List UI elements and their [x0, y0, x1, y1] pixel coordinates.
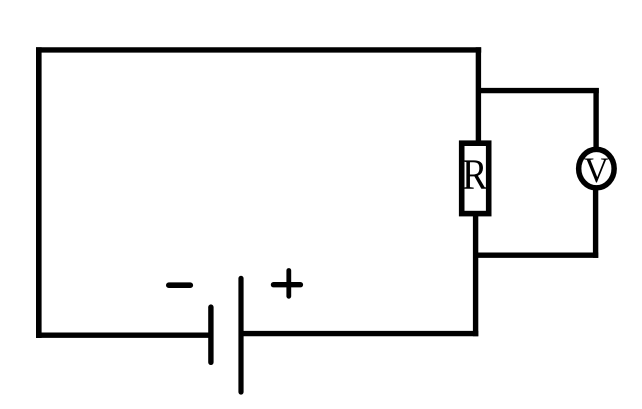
- resistor R body: [462, 143, 489, 213]
- battery positive plate (long): [238, 278, 243, 392]
- wire right rail lower (resistor to bottom rail): [473, 213, 478, 336]
- voltmeter V body: [579, 149, 615, 188]
- battery plus polarity label: [274, 271, 301, 297]
- voltmeter V label: [584, 159, 608, 183]
- wire top rail: [36, 47, 481, 52]
- wire voltmeter lead lower: [593, 188, 598, 258]
- battery minus polarity label: [169, 282, 191, 288]
- battery negative plate (short): [208, 307, 213, 362]
- wire left rail: [36, 47, 42, 338]
- resistor R label: [463, 160, 487, 188]
- wire bottom-right (battery positive lead): [241, 331, 478, 336]
- wire bottom-left (battery negative lead): [36, 333, 211, 338]
- wire voltmeter lead upper: [593, 88, 598, 150]
- wire right rail upper (top rail to resistor): [476, 47, 481, 144]
- wire voltmeter branch top: [476, 88, 599, 93]
- wire voltmeter branch bottom: [473, 252, 598, 257]
